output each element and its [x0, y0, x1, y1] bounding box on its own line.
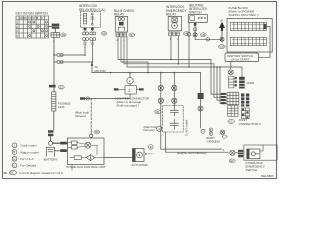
body ground label: [207, 136, 221, 144]
svg-text:(Engine room harness): (Engine room harness): [177, 151, 206, 155]
wire label W blob 1: [48, 130, 53, 133]
wire to emergency switch: [235, 152, 238, 154]
To MOTOR label: [95, 65, 107, 73]
fuse row 1: [230, 22, 266, 30]
svg-text:M1: M1: [62, 33, 66, 37]
joint connector C label: [239, 118, 262, 126]
connector E1 body: [51, 33, 60, 38]
wire V2 relay to bus B2: [92, 41, 94, 63]
interlock relay pin number labels: [83, 42, 95, 46]
svg-text:: For Canada: : For Canada: [19, 164, 37, 168]
main harness label: [75, 111, 89, 118]
svg-text:To A/T model: To A/T model: [185, 119, 189, 136]
bulb check relay pin row: [116, 33, 127, 37]
control unit bottom dashed stub: [71, 165, 73, 171]
wire bundle L1 bulb relay pin to grid: [118, 37, 211, 60]
svg-text:KEY IN IGN SWITCH: KEY IN IGN SWITCH: [16, 12, 49, 16]
svg-text:2: 2: [128, 89, 130, 93]
svg-text:M4: M4: [156, 110, 160, 114]
connector label M8 oval: [183, 32, 189, 36]
fusible link value label: [58, 102, 71, 110]
interlock emergency relay K3 label: [166, 5, 187, 16]
svg-text:B: B: [145, 152, 147, 156]
fuse row 1 active fuse blob: [264, 24, 267, 29]
connector A pin dots: [235, 77, 237, 86]
SMJ grid connector body: [227, 92, 239, 104]
main harness dashed wire: [90, 99, 92, 131]
connector label E6 oval: [222, 135, 227, 138]
battery BT1 body: [47, 147, 55, 156]
actuator M1 box: [133, 149, 145, 162]
control unit relay circle: [85, 142, 91, 148]
fuse row 2: [230, 37, 266, 45]
svg-text:: Truck model: : Truck model: [19, 144, 37, 148]
ignition switch SW1 contact table: [16, 16, 49, 38]
wire ignition label box down: [230, 62, 232, 69]
svg-text:J-D06: J-D06: [246, 81, 254, 85]
emergency relay coil circle: [172, 23, 178, 29]
SMJ inline connector box: [125, 86, 136, 94]
wire engine room run 1: [161, 146, 222, 149]
motor arrow head: [91, 62, 94, 65]
interlock relay K1 label: [79, 4, 105, 12]
switch S2 contact dots: [198, 17, 206, 19]
connector label W/R blob: [52, 24, 60, 26]
svg-text:M: M: [11, 171, 14, 175]
node V1 B1 junction: [84, 54, 86, 56]
SMJ grid hatched lower part: [228, 106, 238, 117]
legend item 1 truck model: [12, 143, 37, 148]
node on feed at bus B1: [53, 54, 55, 56]
bulb check relay core blob: [119, 22, 124, 26]
switch pin stub black: [194, 23, 197, 26]
control unit internal wires: [68, 143, 105, 158]
svg-text:E5: E5: [230, 159, 234, 163]
neutral interlock switch S2 box: [188, 14, 207, 22]
svg-text:U: U: [13, 157, 15, 161]
wire bundle L3: [124, 37, 214, 64]
main body harness label 2: [144, 125, 158, 132]
connector cross circles row 2: [158, 98, 177, 103]
svg-text:UP: UP: [220, 20, 224, 23]
wire arrow stem: [221, 31, 223, 42]
wire grid stub 1: [211, 93, 227, 95]
interlock relay pin squares: [84, 28, 87, 30]
battery direct arrow: [219, 22, 225, 31]
interlock relay K1 contact: [91, 13, 94, 25]
wire switch pin center down: [194, 22, 196, 39]
fusible link FL: [52, 92, 56, 111]
bulb check relay pin labels: [116, 38, 125, 42]
connector A hatched: [229, 76, 234, 88]
battery BT1 positive terminal: [48, 141, 52, 145]
inline connector black box on ground drop: [198, 93, 204, 99]
SMJ note text: [115, 97, 150, 108]
interlock release switch body: [247, 149, 260, 159]
svg-text:: For U.S.A.: : For U.S.A.: [19, 157, 35, 161]
neutral interlock switch S2 label: [189, 3, 208, 14]
wire tick label A: [223, 148, 225, 152]
wire fuse to ignition label box: [259, 27, 271, 58]
connector circle pin into control unit: [90, 134, 93, 137]
svg-text:harness): harness): [75, 114, 86, 118]
wire emergency relay pin2 down: [177, 36, 179, 64]
wire SMJ box down to dashed harness: [84, 94, 130, 99]
svg-text:BATTERY: BATTERY: [44, 158, 58, 162]
connector D hatched with pins: [242, 108, 250, 119]
svg-text:E2: E2: [60, 85, 64, 89]
wire label W blob 2: [48, 134, 53, 137]
interlock relay K1 coil: [84, 14, 87, 24]
connector label W/B blob: [52, 26, 60, 28]
ignition switch table header text and contact dots: [17, 17, 43, 38]
svg-text:1: 1: [14, 144, 16, 148]
wire bus B8 horizontal run: [92, 72, 201, 74]
connector circle on wire: [206, 38, 210, 42]
connector label M5 oval 2: [229, 159, 235, 163]
wire label OB blob 2: [60, 149, 66, 152]
emergency relay pin labels: [170, 37, 179, 41]
interlock emergency relay K3 box: [168, 16, 182, 30]
connector label J/C oval: [228, 119, 235, 123]
connector C black columns: [241, 94, 249, 107]
wire label OB blob 1: [60, 142, 66, 145]
connector pair on B1: [57, 54, 63, 57]
svg-text:SWITCH: SWITCH: [246, 168, 258, 172]
ignition switch SW1 table title: [16, 12, 49, 16]
connector pair on B2: [57, 61, 63, 64]
fuse block FB outline: [227, 18, 272, 52]
wire emergency relay pin1 down: [170, 36, 172, 60]
svg-text:1: 1: [158, 127, 160, 131]
connector label M6 oval: [101, 32, 107, 36]
connector label M9 oval: [200, 33, 206, 37]
node B8 x130: [129, 72, 131, 74]
svg-text:2: 2: [129, 79, 131, 83]
wire bus B2 to relay pin 2: [54, 61, 92, 63]
svg-text:: Wagon model: : Wagon model: [19, 150, 39, 154]
svg-text:AC: AC: [24, 17, 28, 20]
actuator side pin note: [145, 152, 154, 156]
switch left pin connector circle: [187, 33, 191, 37]
svg-text:M10: M10: [219, 45, 225, 49]
condenser drop wire 2: [173, 73, 175, 106]
wire SMJ branch drop: [129, 73, 131, 78]
fuse symbol circle 25A: [228, 70, 233, 75]
stub wire label blobs: [221, 93, 226, 104]
connector cross circles row 1: [158, 85, 177, 90]
svg-text:C: C: [13, 164, 16, 168]
connector D pin dots: [242, 109, 248, 119]
connector cross circle on stem: [220, 37, 224, 41]
connector cross circle on ground drop: [198, 106, 203, 111]
SMJ side pin marks: [114, 88, 144, 90]
condenser drop wire 1: [160, 73, 162, 146]
connector label M10 oval: [218, 45, 225, 49]
wire dashed harness to control unit: [90, 130, 92, 134]
node B8 x161: [160, 72, 162, 74]
svg-text:INTERLOCK CONTROL UNIT: INTERLOCK CONTROL UNIT: [67, 165, 106, 169]
wire into SMJ box: [129, 84, 131, 86]
bulb check relay contact marks: [118, 27, 124, 30]
connector label M4 oval: [155, 110, 161, 114]
connector circle on wire: [86, 97, 89, 100]
condenser C1: [170, 106, 178, 117]
connector B black block: [239, 77, 245, 89]
bulb check relay coil circles: [118, 18, 124, 21]
wire engine room run 2: [166, 132, 229, 152]
interlock relay connector circles row 2: [83, 38, 96, 41]
wire bundle L2: [121, 37, 148, 73]
node V2 B2 junction: [91, 61, 93, 63]
wire fusible link to battery: [51, 111, 54, 141]
wire B2 corner down to bus B8: [91, 62, 93, 73]
control unit input resistor block 2: [72, 146, 78, 149]
bulb check relay K2 box: [115, 16, 127, 32]
wire switch to arrow stem: [195, 38, 222, 40]
svg-text:(Fold-out page).): (Fold-out page).): [117, 104, 139, 108]
svg-text:M8: M8: [185, 32, 189, 36]
svg-text:SUPPLY ROUTING”.): SUPPLY ROUTING”.): [229, 13, 259, 17]
svg-text:SWITCH: SWITCH: [189, 11, 202, 15]
svg-text:4: 4: [17, 35, 19, 38]
svg-text:BE: BE: [4, 171, 8, 175]
ignition switch on-start label text: [227, 54, 253, 62]
node B8 x110: [110, 72, 112, 74]
legend item 4 for canada: [12, 163, 36, 168]
svg-text:ST: ST: [32, 17, 36, 20]
wire elbow bus B4 to grid stub 2: [214, 64, 227, 97]
legend item 3 for usa: [12, 156, 34, 161]
connector label M5 oval: [94, 130, 100, 134]
svg-text:RELAY: RELAY: [166, 12, 177, 16]
svg-text:M6: M6: [102, 32, 106, 36]
svg-text:A: A: [223, 148, 225, 152]
emergency relay contact cross box: [172, 18, 178, 22]
wagon model circle B: [149, 145, 154, 150]
interlock relay connector circles row 1: [83, 32, 96, 35]
wire control unit to actuator: [104, 157, 133, 159]
svg-text:B: B: [13, 150, 15, 154]
emergency relay pin row: [169, 32, 180, 36]
control unit input resistor block 1: [72, 141, 78, 144]
svg-text:B: B: [150, 145, 152, 149]
switch pin connector cross circle: [193, 33, 197, 37]
switch S2 inner block: [190, 16, 195, 21]
legend item 2 wagon model: [12, 150, 39, 155]
wire elbow bus B5 to grid stub 3: [217, 67, 227, 100]
wire V1 relay to bus: [84, 41, 86, 56]
ground eyelet circle: [201, 129, 205, 133]
control unit resistor R1: [74, 156, 81, 160]
wire battery positive to control unit: [53, 142, 68, 144]
wire switch left pin down long: [188, 22, 190, 67]
svg-text:SEL586V: SEL586V: [261, 174, 275, 178]
switch pin connector circle: [193, 28, 197, 32]
wire main battery feed W: [53, 37, 55, 92]
svg-text:R: R: [41, 17, 43, 20]
svg-text:ON or START: ON or START: [231, 57, 250, 61]
svg-text:M7: M7: [130, 33, 134, 37]
wire battery body to control unit: [55, 150, 68, 152]
interlock control unit U1 box: [68, 138, 105, 165]
connector label E2 oval: [58, 85, 64, 89]
wire elbow bus B2 to grid stub 4: [220, 67, 227, 103]
fuse circle 2 on branch: [127, 78, 133, 84]
condenser box dashed: [163, 106, 184, 133]
svg-text:J/C: J/C: [229, 120, 233, 124]
wire from ignition switch to connector E1: [49, 27, 56, 33]
wire label B/W blob: [80, 97, 85, 99]
interlock emergency switch label: [246, 161, 265, 172]
ground cross circle right: [220, 130, 224, 134]
legend item 5 circuit note: [10, 170, 64, 174]
svg-text:LINK: LINK: [58, 105, 65, 109]
control unit diode D1 diamond: [86, 155, 94, 161]
fuse block FB label: [229, 6, 259, 17]
connector label M1 oval: [61, 33, 67, 37]
connector label M7 oval: [129, 33, 135, 37]
wire elbow bus B3 to grid stub 1: [210, 60, 212, 95]
wire switch to outline: [260, 145, 263, 151]
wire label W/B blob above fusible link: [49, 85, 56, 88]
wire bundle L4: [127, 37, 242, 77]
page frame: [3, 2, 277, 179]
svg-text:: A circuit diagram models for: : A circuit diagram models for U.S.A.: [18, 171, 64, 175]
svg-text:harness): harness): [144, 128, 155, 132]
interlock release switch outline box: [244, 145, 277, 160]
svg-text:CONNECTOR C: CONNECTOR C: [239, 122, 262, 126]
svg-text:ACTUATOR: ACTUATOR: [132, 163, 149, 167]
interlock relay pin stubs: [85, 28, 92, 32]
node B8 x148: [147, 72, 149, 74]
condenser C2: [170, 120, 178, 130]
ignition switch on-start label box: [225, 53, 259, 62]
wire ground drop: [200, 73, 202, 128]
wire bus B1 to interlock relay: [54, 54, 85, 56]
ground B circles: [209, 128, 213, 136]
svg-text:RELAY: RELAY: [114, 13, 125, 17]
truck model circle 1: [157, 126, 162, 131]
inline connector black to switch: [238, 150, 243, 157]
interlock relay K1 dashed box: [81, 12, 101, 28]
svg-text:GROUND: GROUND: [207, 140, 221, 144]
connector cross circle to switch: [230, 150, 235, 155]
node B8 x174: [174, 72, 176, 74]
svg-text:M5: M5: [95, 130, 99, 134]
svg-text:M9: M9: [202, 33, 206, 37]
bulb check relay K2 label: [114, 9, 135, 17]
